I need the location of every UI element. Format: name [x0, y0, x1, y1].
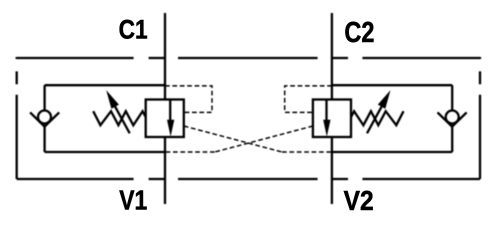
pilot line horizontal to V1 (dashed)	[165, 151, 215, 153]
CB1 adjustment arrowhead	[106, 90, 119, 109]
port line C1-V1	[164, 13, 166, 204]
svg-text:V2: V2	[344, 185, 374, 216]
pilot line horizontal to V2 (dashed)	[282, 151, 332, 153]
CB1 adjustment arrow shaft	[111, 98, 130, 133]
manifold boundary bottom edge (long-dash)	[17, 178, 480, 180]
CB2 spring	[351, 111, 404, 125]
CB2 flow arrowhead	[323, 120, 330, 137]
wire: left circuit top edge	[45, 84, 165, 86]
CB2 adjustment arrowhead	[378, 90, 391, 109]
manifold boundary right edge (long-dash)	[479, 57, 481, 179]
pilot loop right (dashed)	[285, 86, 332, 113]
wire: left circuit vertical above check valve	[43, 85, 45, 110]
CB1 flow path line	[169, 100, 171, 122]
check valve CV2 seat	[438, 112, 467, 126]
check valve CV1 ball	[38, 111, 51, 124]
port line C2-V2	[331, 13, 333, 204]
svg-text:C1: C1	[119, 14, 148, 44]
pilot line from CB1 crossing to V2 side (dashed diagonal)	[184, 126, 282, 152]
CB2 flow path line	[325, 100, 327, 122]
wire: left circuit bottom edge	[45, 151, 165, 153]
wire: right circuit vertical above check valve	[451, 85, 453, 110]
svg-text:C2: C2	[344, 17, 374, 49]
wire: right circuit top edge	[332, 84, 452, 86]
manifold boundary top edge (long-dash)	[17, 57, 480, 59]
check valve CV2 ball	[446, 111, 459, 124]
CB1 spring	[93, 111, 146, 125]
manifold boundary left edge (long-dash)	[16, 57, 18, 179]
counterbalance valve CB1 envelope	[146, 100, 184, 138]
CB1 flow arrowhead	[167, 120, 174, 137]
counterbalance valve CB2 envelope	[313, 100, 351, 138]
wire: left circuit vertical below check valve	[43, 127, 45, 152]
check valve CV1 seat	[30, 112, 59, 126]
pilot loop left (dashed)	[165, 86, 212, 113]
svg-text:V1: V1	[119, 185, 147, 216]
wire: right circuit vertical below check valve	[451, 127, 453, 152]
wire: right circuit bottom edge	[332, 151, 452, 153]
pilot line from CB2 crossing to V1 side (dashed diagonal)	[215, 126, 313, 152]
CB2 adjustment arrow shaft	[367, 98, 386, 133]
